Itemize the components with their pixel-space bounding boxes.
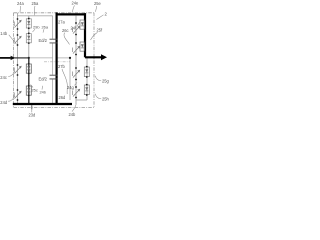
- wire: left clamp chain lower (highlighted): [28, 58, 30, 104]
- transistor 24c (left leg, pos 3): [14, 67, 21, 74]
- diode box 25f (right chain, pos 2): [80, 42, 85, 51]
- diode box 25d (left clamp, pos 4): [26, 86, 31, 95]
- svg-text:25e: 25e: [94, 1, 102, 6]
- wire: right diode chain lower: [76, 58, 87, 101]
- svg-text:26a: 26a: [42, 25, 49, 30]
- svg-text:24b: 24b: [69, 112, 77, 117]
- svg-text:24g: 24g: [67, 85, 75, 90]
- svg-text:24b: 24b: [40, 90, 47, 95]
- wire: mid rail highlighted segment: [15, 57, 30, 59]
- wire: right clamp upper: [69, 58, 71, 100]
- junction dots left clamp chain: [28, 18, 30, 97]
- svg-text:25h: 25h: [102, 97, 110, 102]
- transistor 24h (right leg, pos 4): [73, 90, 80, 97]
- svg-text:26d: 26d: [59, 95, 67, 100]
- thick output arrow right: [85, 56, 102, 58]
- wire: mid rail: [15, 57, 53, 59]
- thick input arrow left: [0, 57, 11, 59]
- svg-text:27b: 27b: [58, 64, 66, 69]
- wire: left switch chain: [17, 13, 19, 104]
- capacitor C1 plates: [50, 39, 58, 43]
- svg-text:23d: 23d: [29, 112, 37, 117]
- thick bottom rail: [13, 103, 72, 105]
- transistor 24a (left leg, pos 1): [14, 21, 21, 28]
- transistor 24f (right leg, pos 2): [73, 47, 80, 54]
- diode box 25h (right chain, pos 4): [84, 85, 89, 95]
- thick current path: right leg vertical: [84, 13, 86, 57]
- svg-text:25g: 25g: [102, 79, 110, 84]
- capacitor C2 plates: [50, 75, 58, 79]
- svg-text:24c: 24c: [0, 75, 7, 80]
- diode box 25a' (left clamp, pos 1): [26, 19, 31, 28]
- diode box 25b (left clamp, pos 2): [26, 34, 31, 43]
- svg-text:25c: 25c: [32, 88, 38, 93]
- diode box 25e' (right chain, pos 1): [80, 20, 85, 29]
- svg-text:25f: 25f: [97, 28, 104, 33]
- wire: dc-link capacitor chain: [52, 16, 54, 104]
- svg-text:29b: 29b: [33, 25, 40, 30]
- dash-dot divider segment: [44, 61, 70, 63]
- svg-text:Ed/2: Ed/2: [39, 77, 48, 82]
- diode box 25c (left clamp, pos 3): [26, 64, 31, 73]
- dashed enclosure box 2 (left edge): [13, 13, 15, 108]
- transistor 24d (left leg, pos 4): [14, 92, 21, 99]
- transistor 25a (left leg, pos 2): [14, 37, 21, 44]
- diode box 25g (right chain, pos 3): [84, 67, 89, 77]
- svg-text:24f: 24f: [71, 25, 78, 30]
- svg-text:24d: 24d: [0, 100, 8, 105]
- svg-text:24a: 24a: [17, 1, 25, 6]
- wire: right mid connection: [57, 57, 70, 59]
- dashed enclosure box 2 (right edge): [93, 13, 95, 108]
- dashed enclosure box 2 (bottom edge): [14, 107, 95, 109]
- svg-text:25a: 25a: [32, 1, 40, 6]
- terminal stub 23d: [31, 105, 33, 110]
- svg-text:24e: 24e: [72, 1, 80, 6]
- thick current path: dc-link vertical: [55, 12, 57, 104]
- transistor 24g (right leg, pos 3): [73, 71, 80, 78]
- wire: left leg top rail: [18, 15, 53, 17]
- svg-text:14b: 14b: [0, 31, 8, 36]
- thick current path: top rail: [56, 13, 87, 15]
- svg-text:Ed/2: Ed/2: [39, 38, 48, 43]
- dashed enclosure box 2 (top edge): [14, 12, 95, 14]
- svg-text:26c: 26c: [62, 28, 69, 33]
- svg-text:27a: 27a: [58, 20, 66, 25]
- transistor 24e (right leg, pos 1): [73, 27, 80, 34]
- wire: left clamp chain upper: [28, 16, 30, 58]
- wire: right switch chain: [75, 16, 77, 104]
- junction dots right chains: [69, 19, 88, 99]
- junction dots left switch chain: [17, 18, 19, 101]
